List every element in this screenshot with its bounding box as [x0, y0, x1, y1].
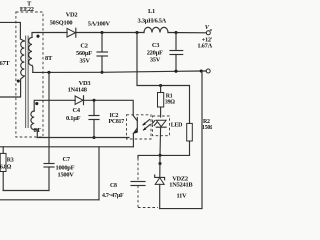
- aux phasing dot: [35, 102, 38, 105]
- svg-text:o: o: [210, 27, 212, 32]
- capacitor C7: [44, 72, 54, 190]
- svg-text:LED: LED: [171, 123, 182, 129]
- transformer core: [26, 36, 28, 129]
- zener diode VDZ2: [155, 175, 165, 209]
- opto photon arrows: [143, 120, 151, 131]
- svg-text:11V: 11V: [177, 193, 188, 200]
- LED arrows: [152, 121, 157, 126]
- svg-text:3.3µH/6.5A: 3.3µH/6.5A: [138, 18, 167, 25]
- LED diode: [156, 120, 166, 127]
- diode VD2: [67, 28, 76, 37]
- svg-text:1.67A: 1.67A: [197, 43, 212, 50]
- svg-text:PC817: PC817: [109, 119, 125, 125]
- LED dashed box: [153, 116, 170, 136]
- capacitor C4: [89, 100, 99, 137]
- junction dot C3 bottom: [174, 70, 177, 73]
- svg-text:C3: C3: [152, 42, 159, 49]
- svg-text:C2: C2: [80, 43, 87, 50]
- svg-text:C4: C4: [73, 107, 81, 114]
- wire source drop: [98, 147, 100, 200]
- junction dot C7 branch: [47, 71, 50, 74]
- wire R2 bottom to chain: [160, 154, 190, 156]
- junction dot C2 bottom: [100, 71, 103, 74]
- resistor R1: [158, 86, 164, 118]
- svg-text:1500V: 1500V: [58, 172, 75, 179]
- aux top lead: [34, 100, 49, 111]
- svg-text:0.1µF: 0.1µF: [66, 115, 81, 122]
- wire primary bottom out: [0, 76, 24, 97]
- wire control rail: [0, 146, 133, 148]
- svg-text:560µF: 560µF: [76, 50, 92, 57]
- 0V rail: [33, 71, 207, 72]
- output terminal Vo: [206, 31, 210, 35]
- junction dot chain C8: [158, 162, 161, 165]
- diode VD3: [75, 96, 83, 105]
- svg-text:4.7~47µF: 4.7~47µF: [102, 193, 124, 199]
- svg-text:35V: 35V: [150, 57, 161, 64]
- top rail secondary to VD2: [38, 32, 67, 34]
- svg-text:C8: C8: [110, 183, 117, 189]
- svg-text:50SQ100: 50SQ100: [50, 19, 73, 26]
- svg-text:6.8Ω: 6.8Ω: [0, 165, 12, 171]
- top rail L1 to terminal: [168, 32, 206, 34]
- wire R3 C7 bottom: [3, 190, 49, 192]
- svg-text:8T: 8T: [45, 55, 53, 62]
- junction dot terminal drop: [200, 69, 203, 72]
- svg-text:EE22: EE22: [20, 6, 34, 13]
- svg-text:35V: 35V: [79, 58, 90, 65]
- svg-text:220µF: 220µF: [147, 49, 163, 56]
- svg-text:C7: C7: [63, 156, 71, 163]
- top rail VD2 to L1: [76, 32, 144, 34]
- primary winding 67T: [21, 41, 25, 76]
- junction dot C4 top: [92, 99, 95, 102]
- resistor R2: [187, 123, 193, 155]
- svg-text:5A/100V: 5A/100V: [88, 21, 111, 28]
- junction dot R1 top: [159, 84, 162, 87]
- wire R2 drop: [189, 86, 191, 124]
- wire aux to VD3: [49, 99, 75, 101]
- primary phasing dot: [17, 79, 20, 82]
- transformer T EE22 dashed box: [16, 12, 43, 137]
- svg-text:R2: R2: [203, 119, 210, 125]
- svg-text:R3: R3: [7, 158, 14, 164]
- svg-text:67T: 67T: [0, 60, 10, 67]
- wire primary top in: [0, 22, 24, 41]
- junction dot chain R2: [158, 154, 161, 157]
- secondary top lead: [32, 33, 38, 38]
- inductor L1: [144, 27, 168, 32]
- junction dot C3 top: [174, 31, 177, 34]
- capacitor C2: [97, 33, 108, 73]
- svg-text:L1: L1: [148, 8, 155, 15]
- wire VD3 to opto collector: [84, 100, 134, 115]
- aux bottom lead: [34, 130, 37, 138]
- svg-text:39Ω: 39Ω: [165, 99, 175, 105]
- opto phototransistor: [133, 116, 138, 147]
- svg-text:150Ω: 150Ω: [202, 125, 212, 131]
- wire chain to zener: [159, 155, 161, 177]
- return terminal: [206, 69, 210, 73]
- bottom left rail: [0, 199, 99, 201]
- secondary bottom lead: [31, 65, 34, 72]
- junction dot node A: [135, 31, 138, 34]
- svg-text:1N5241B: 1N5241B: [169, 182, 193, 189]
- resistor R3: [0, 147, 6, 191]
- svg-text:1000pF: 1000pF: [56, 164, 75, 171]
- svg-text:VD2: VD2: [66, 12, 78, 19]
- wire LED to zener: [159, 127, 162, 155]
- bottom right rail: [160, 71, 202, 209]
- secondary phasing dot: [36, 35, 39, 38]
- capacitor C3: [170, 33, 183, 72]
- aux winding 8T: [31, 111, 34, 130]
- junction dot C4 bottom: [92, 136, 95, 139]
- capacitor C8 optional: [131, 155, 160, 207]
- wire node A drop to feedback: [137, 33, 190, 86]
- optocoupler IC2 PC817 dashed box: [127, 115, 152, 139]
- secondary winding 8T: [29, 37, 32, 65]
- svg-text:1N4148: 1N4148: [68, 86, 87, 93]
- junction dot C2 top: [100, 31, 103, 34]
- wire aux return: [37, 137, 129, 139]
